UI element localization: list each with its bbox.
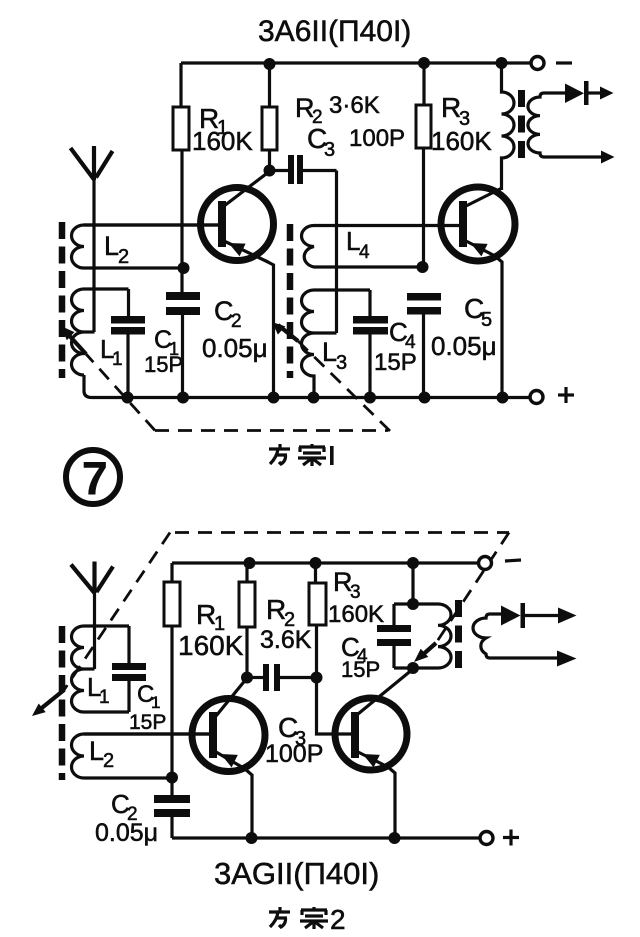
diode D1: [544, 91, 566, 94]
svg-text:2: 2: [118, 246, 129, 268]
svg-text:15P: 15P: [144, 352, 183, 377]
svg-text:3: 3: [336, 352, 347, 374]
svg-text:2: 2: [103, 750, 114, 772]
node L2 bottom / R1 (2): [166, 772, 178, 784]
svg-text:3.6K: 3.6K: [260, 626, 312, 654]
svg-text:15P: 15P: [129, 711, 166, 734]
capacitor C2 (2): [170, 778, 173, 795]
dashed scheme-2 box top: [175, 531, 509, 534]
svg-text:3: 3: [350, 582, 361, 603]
tank circuit: C4 (2) parallel with transformer primary: [411, 563, 414, 604]
wire top supply rail: [181, 61, 531, 64]
node R3/C3/base drop: [311, 672, 323, 684]
svg-text:2: 2: [330, 904, 346, 935]
transformer core: [518, 90, 525, 160]
transformer core (2): [455, 600, 462, 668]
resistor R2 (2): [245, 563, 248, 582]
transformer secondary (2): [473, 614, 557, 658]
node below R2: [264, 165, 276, 177]
coil L3: [302, 290, 371, 397]
coil L2: [72, 225, 219, 268]
dashed slant right with arrow: [298, 341, 390, 431]
svg-text:100P: 100P: [349, 125, 405, 152]
svg-text:L: L: [89, 736, 104, 766]
coil L1 (2): [72, 626, 130, 712]
diode D1 (2): [501, 606, 521, 626]
svg-text:160K: 160K: [192, 126, 253, 156]
node tank bottom: [407, 662, 419, 674]
coil L2 (2): [72, 734, 210, 778]
terminal plus (bottom right 2): [480, 832, 493, 845]
svg-text:0.05μ: 0.05μ: [431, 331, 497, 361]
svg-text:0.05μ: 0.05μ: [202, 333, 268, 363]
transistor Q1: [201, 188, 274, 261]
junction dots top rail (2): [244, 557, 256, 569]
svg-text:L: L: [322, 337, 337, 367]
antenna (top circuit): [71, 148, 95, 180]
terminal minus (top right): [479, 557, 492, 570]
capacitor C1: [127, 289, 130, 316]
svg-text:0.05μ: 0.05μ: [95, 819, 158, 847]
bottom rail circuit 2: [172, 836, 480, 839]
coil L4: [302, 226, 460, 268]
capacitor C3 (coupling, vertical plates): [270, 169, 289, 172]
top rail circuit 2: [172, 561, 479, 564]
junction dots bottom rail (2): [246, 832, 258, 844]
label fang-an 1: [269, 444, 290, 464]
resistor R3 (2): [314, 563, 317, 583]
transformer primary coil (2): [438, 604, 451, 668]
label fang-an 2: [269, 907, 290, 927]
svg-text:7: 7: [82, 452, 108, 504]
svg-text:100P: 100P: [265, 740, 323, 768]
svg-text:3: 3: [324, 139, 335, 161]
transistor Q2 (2): [335, 698, 407, 770]
capacitor C5: [407, 293, 441, 301]
svg-text:2: 2: [231, 311, 242, 332]
svg-text:160K: 160K: [328, 601, 384, 628]
antenna (bottom circuit): [71, 565, 95, 594]
svg-text:15P: 15P: [341, 657, 380, 682]
transistor Q1 (2): [192, 699, 265, 772]
coil L1: [72, 289, 129, 375]
resistor R2: [268, 64, 271, 107]
node L4 bottom / R3 / C5: [417, 261, 429, 273]
capacitor C3 (2) coupling: [247, 676, 263, 679]
output arrow top (2): [558, 608, 577, 624]
resistor R3: [422, 63, 425, 105]
circled 7 figure number: [66, 450, 120, 504]
transformer secondary: [528, 93, 544, 157]
ferrite core (dashed) L1/L2: [59, 222, 66, 378]
svg-text:5: 5: [481, 309, 492, 331]
wire base drop to Q2: [317, 678, 352, 735]
svg-text:4: 4: [359, 242, 370, 263]
svg-text:160K: 160K: [431, 126, 492, 156]
svg-text:1: 1: [99, 687, 110, 708]
terminal plus (bottom right): [530, 391, 543, 404]
bottom rail circuit 1: [84, 375, 530, 398]
svg-text:3AGII(П40I): 3AGII(П40I): [214, 856, 379, 891]
transistor Q2: [441, 187, 515, 261]
node L2 bottom / R1: [178, 262, 190, 274]
svg-text:3A6II(П40I): 3A6II(П40I): [258, 15, 411, 48]
svg-text:3·6K: 3·6K: [329, 92, 380, 119]
node tank top: [407, 598, 419, 610]
output arrow top: [600, 87, 614, 100]
capacitor C2: [166, 292, 200, 300]
ferrite core (dashed) L3/L4: [287, 224, 294, 378]
junction dots circuit 1: [264, 58, 276, 70]
svg-text:1: 1: [151, 693, 160, 712]
ferrite core (dashed) circuit 2: [59, 626, 66, 780]
dashed slant right with arrow: [436, 533, 509, 644]
svg-text:1: 1: [112, 349, 123, 370]
dashed slant left with arrow: [64, 533, 170, 691]
resistor R1 (2): [170, 563, 173, 582]
dashed scheme-1 box bottom: [155, 429, 388, 432]
output arrow bottom (2): [557, 651, 577, 667]
svg-text:160K: 160K: [178, 630, 244, 661]
svg-text:L: L: [104, 231, 119, 261]
dashed slant left with arrow: [86, 354, 155, 431]
node R2/C3/Q1 collector: [241, 672, 253, 684]
capacitor C1 (2): [127, 626, 130, 663]
resistor R1: [179, 63, 182, 107]
terminal minus (top right, open circle): [531, 57, 544, 70]
output arrow bottom: [544, 155, 602, 158]
svg-text:15P: 15P: [374, 349, 417, 376]
capacitor C4: [368, 290, 371, 316]
output transformer primary: [502, 63, 515, 190]
